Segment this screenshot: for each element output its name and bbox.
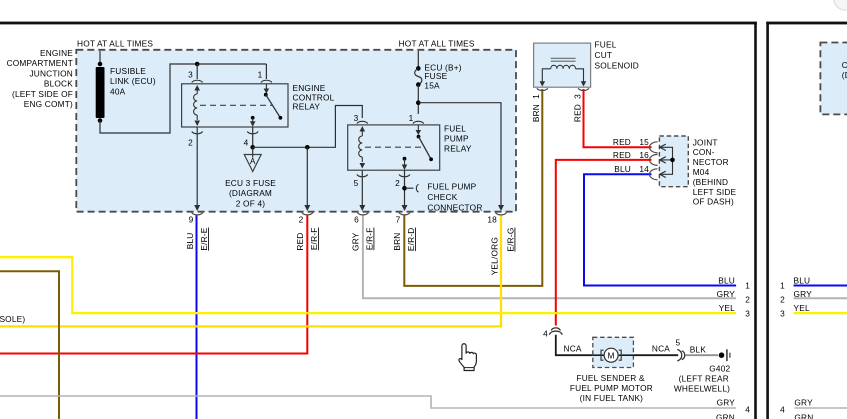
svg-text:BRN: BRN bbox=[392, 233, 402, 251]
svg-text:3: 3 bbox=[745, 308, 750, 318]
svg-text:2: 2 bbox=[745, 295, 750, 305]
svg-text:BLU: BLU bbox=[185, 233, 195, 250]
svg-text:15: 15 bbox=[639, 137, 649, 147]
svg-text:E/R-E: E/R-E bbox=[199, 227, 209, 250]
svg-text:RED: RED bbox=[613, 137, 631, 147]
svg-text:LEFT SIDE: LEFT SIDE bbox=[693, 187, 737, 197]
wire to pin 18 drop bbox=[418, 103, 501, 207]
ground G402 bbox=[719, 352, 725, 358]
node dot below fusible link bbox=[98, 118, 103, 123]
wire node to fuel pump relay pin 3 bbox=[253, 106, 363, 148]
joint connector M04 box bbox=[659, 136, 688, 187]
svg-text:1: 1 bbox=[745, 281, 750, 291]
svg-text:CUT: CUT bbox=[595, 50, 613, 60]
svg-text:(DIAGRAM: (DIAGRAM bbox=[229, 188, 272, 198]
connector arc pin 1 top bbox=[261, 80, 272, 82]
wire pin 2 down to block edge bbox=[196, 127, 198, 207]
wire BLK fuel sender feed bbox=[556, 335, 593, 355]
svg-text:E/R-F: E/R-F bbox=[309, 228, 319, 251]
svg-text:OF DASH): OF DASH) bbox=[693, 197, 734, 207]
svg-text:COMPARTMENT: COMPARTMENT bbox=[7, 58, 73, 68]
motor M1 symbol bbox=[593, 354, 604, 356]
svg-text:E/R-G: E/R-G bbox=[506, 228, 516, 252]
svg-text:JUNCTION: JUNCTION bbox=[29, 68, 73, 78]
svg-text:RELAY: RELAY bbox=[293, 101, 321, 111]
connector 4 on red wire double arc bbox=[549, 331, 562, 335]
svg-text:GRN: GRN bbox=[716, 413, 735, 419]
svg-text:E/R-D: E/R-D bbox=[406, 228, 416, 252]
svg-text:GRY: GRY bbox=[717, 398, 736, 408]
svg-text:BLK: BLK bbox=[690, 344, 707, 354]
watermark circle top-right bbox=[834, 0, 847, 10]
svg-text:FUEL PUMP: FUEL PUMP bbox=[427, 182, 476, 192]
svg-text:BLU: BLU bbox=[718, 275, 735, 285]
svg-text:5: 5 bbox=[354, 178, 359, 188]
connector arc FPR pin 3 top bbox=[357, 121, 368, 123]
svg-text:CON-: CON- bbox=[693, 147, 715, 157]
solenoid core lines bbox=[551, 58, 576, 61]
svg-text:(D: (D bbox=[842, 70, 847, 80]
wire GRY pin 6 to right bus bbox=[363, 216, 736, 299]
svg-text:FUEL SENDER &: FUEL SENDER & bbox=[576, 373, 644, 383]
connector arc solenoid pin 1 bbox=[537, 88, 548, 90]
relay switch contact (engine control relay) bbox=[265, 84, 267, 89]
wire YEL/ORG pin 18 down-left bus bbox=[0, 216, 501, 327]
wire BLU pin 9 vertical bbox=[196, 216, 198, 419]
mouse hand cursor bbox=[459, 344, 476, 371]
svg-text:RED: RED bbox=[295, 233, 305, 251]
wire RED joint connector pin 16 to fuel pump bbox=[556, 160, 652, 326]
node dot red branch bbox=[305, 145, 310, 150]
svg-text:FUEL PUMP MOTOR: FUEL PUMP MOTOR bbox=[570, 383, 653, 393]
wire BRN pin 7 to solenoid bbox=[404, 89, 542, 286]
svg-text:18: 18 bbox=[487, 215, 497, 225]
svg-text:FUSIBLE: FUSIBLE bbox=[110, 66, 146, 76]
page 2 wire GRY lower bbox=[794, 407, 847, 409]
svg-text:GRY: GRY bbox=[351, 232, 361, 251]
svg-text:2: 2 bbox=[780, 295, 785, 305]
svg-text:M: M bbox=[608, 350, 615, 360]
FPR pin 2 contact dot bbox=[403, 157, 407, 161]
svg-text:PUMP: PUMP bbox=[444, 134, 469, 144]
svg-text:YEL: YEL bbox=[794, 303, 810, 313]
wire FPR pin 2 down bbox=[404, 170, 406, 207]
bottom edge connector arcs pins 9,2,6,7,18 bbox=[192, 213, 203, 215]
svg-text:HOT AT ALL TIMES: HOT AT ALL TIMES bbox=[77, 39, 153, 49]
wire GRY lower bus bbox=[0, 396, 736, 408]
svg-text:1: 1 bbox=[531, 94, 541, 99]
node dot at pin3 branch bbox=[195, 62, 200, 67]
svg-text:3: 3 bbox=[354, 113, 359, 123]
svg-text:A: A bbox=[250, 156, 256, 166]
relay coil (engine control relay) bbox=[196, 90, 198, 94]
svg-text:GRY: GRY bbox=[794, 398, 813, 408]
svg-text:ENGINE: ENGINE bbox=[40, 48, 73, 58]
svg-text:JOINT: JOINT bbox=[693, 137, 718, 147]
wire pin1 drop bbox=[265, 64, 267, 79]
svg-text:RED: RED bbox=[613, 150, 631, 160]
joint connector internal bus bbox=[660, 147, 666, 174]
svg-text:15A: 15A bbox=[424, 80, 440, 90]
connector arc FPR pin 5 bottom bbox=[357, 175, 368, 177]
page 2 wire GRY bbox=[794, 297, 847, 299]
svg-text:2: 2 bbox=[188, 137, 193, 147]
svg-text:CONSOLE): CONSOLE) bbox=[0, 314, 25, 324]
svg-text:3: 3 bbox=[188, 70, 193, 80]
page 2 wire BLU bbox=[794, 285, 847, 287]
connector arc pin 2 bottom bbox=[192, 132, 203, 134]
svg-text:7: 7 bbox=[396, 215, 401, 225]
wire BLU joint connector pin 14 to bus bbox=[584, 174, 736, 285]
svg-text:RED: RED bbox=[573, 104, 583, 122]
svg-text:(LEFT SIDE OF: (LEFT SIDE OF bbox=[12, 89, 73, 99]
wire RED solenoid to joint connector pin 15 bbox=[584, 89, 652, 147]
svg-text:40A: 40A bbox=[110, 86, 126, 96]
svg-text:M04: M04 bbox=[693, 167, 710, 177]
svg-text:2: 2 bbox=[395, 178, 400, 188]
node dot above fusible link bbox=[98, 62, 103, 67]
svg-text:ECU 3 FUSE: ECU 3 FUSE bbox=[225, 178, 276, 188]
wire BLK to ground bbox=[686, 354, 719, 356]
wire FPR pin 5 down to block edge bbox=[361, 170, 363, 207]
svg-text:3: 3 bbox=[780, 308, 785, 318]
svg-text:C: C bbox=[842, 60, 847, 70]
fuse ECU (B+) 15A bbox=[417, 51, 419, 68]
wire RED pin 2 down-left bus bbox=[0, 216, 307, 354]
svg-text:3: 3 bbox=[573, 94, 583, 99]
node dot fuse branch bbox=[416, 100, 421, 105]
wire motor to connector 5 bbox=[633, 354, 678, 356]
wire fusible link to relay pin 3 feed bbox=[100, 64, 266, 133]
relay pin 4 contact dot bbox=[251, 116, 255, 120]
svg-text:FUEL: FUEL bbox=[595, 40, 617, 50]
wire fuse to pin1/pin18 node bbox=[417, 85, 419, 114]
svg-text:(LEFT REAR: (LEFT REAR bbox=[679, 374, 729, 384]
fusible link FL (ECU) 40A bbox=[96, 67, 105, 118]
svg-text:CHECK: CHECK bbox=[427, 192, 457, 202]
svg-text:14: 14 bbox=[639, 164, 649, 174]
page 2 wire YEL bbox=[794, 312, 847, 314]
connector arc solenoid pin 3 bbox=[578, 88, 589, 90]
svg-text:(IN FUEL TANK): (IN FUEL TANK) bbox=[580, 393, 644, 403]
joint connector pin arcs and arrows bbox=[649, 142, 657, 153]
connector arc FPR pin 1 top bbox=[413, 121, 424, 123]
page 2 left border bbox=[766, 22, 769, 419]
connector arc pin 4 bottom bbox=[247, 132, 258, 134]
ECU 3 fuse triangle A bbox=[252, 147, 254, 157]
svg-text:1: 1 bbox=[409, 113, 414, 123]
connector 5 double arc bbox=[677, 349, 681, 361]
svg-text:9: 9 bbox=[189, 215, 194, 225]
svg-text:HOT AT ALL TIMES: HOT AT ALL TIMES bbox=[399, 39, 475, 49]
page 2 top border bbox=[766, 22, 847, 25]
svg-text:SOLENOID: SOLENOID bbox=[595, 61, 639, 71]
svg-text:4: 4 bbox=[745, 405, 750, 415]
relay dashed actuator line (FPR) bbox=[365, 146, 424, 148]
svg-text:2 OF 4): 2 OF 4) bbox=[236, 199, 266, 209]
solenoid leads bbox=[542, 69, 550, 82]
svg-text:NECTOR: NECTOR bbox=[693, 157, 729, 167]
page 1 right border bbox=[754, 22, 757, 419]
svg-text:BLU: BLU bbox=[614, 164, 631, 174]
svg-text:BRN: BRN bbox=[531, 104, 541, 122]
fuel cut solenoid box bbox=[534, 43, 591, 87]
op box engine control relay U1 bbox=[182, 84, 288, 127]
page 1 top border bbox=[0, 22, 757, 25]
svg-text:1: 1 bbox=[258, 70, 263, 80]
svg-text:ENG COMT): ENG COMT) bbox=[24, 99, 73, 109]
node dot check connector branch bbox=[402, 186, 407, 191]
svg-text:E/R-F: E/R-F bbox=[365, 228, 375, 251]
svg-text:16: 16 bbox=[639, 150, 649, 160]
fuel sender / pump motor box bbox=[593, 337, 634, 367]
node dot pin4 branch bbox=[250, 145, 255, 150]
svg-text:5: 5 bbox=[675, 338, 680, 348]
relay dashed actuator line bbox=[200, 104, 272, 106]
svg-text:WHEELWELL): WHEELWELL) bbox=[674, 383, 730, 393]
wire pin 4 to node bbox=[252, 127, 254, 147]
svg-text:GRY: GRY bbox=[717, 289, 736, 299]
wire red branch down to block edge bbox=[306, 147, 308, 207]
svg-text:NCA: NCA bbox=[564, 343, 582, 353]
svg-text:4: 4 bbox=[244, 137, 249, 147]
page 2 dashed component box bbox=[820, 43, 847, 115]
svg-text:YEL: YEL bbox=[719, 303, 735, 313]
svg-text:4: 4 bbox=[780, 405, 785, 415]
engine compartment junction block box bbox=[76, 50, 516, 212]
connector arc FPR pin 2 bottom bbox=[399, 175, 410, 177]
wire YEL from left page edge bbox=[0, 257, 736, 313]
svg-text:1: 1 bbox=[780, 281, 785, 291]
relay coil (fuel pump relay) bbox=[361, 132, 363, 137]
svg-text:FUEL: FUEL bbox=[444, 124, 466, 134]
svg-text:4: 4 bbox=[543, 329, 548, 339]
relay switch contact (fuel pump relay) bbox=[417, 125, 419, 131]
svg-text:GRN: GRN bbox=[794, 413, 813, 419]
svg-text:2: 2 bbox=[299, 215, 304, 225]
svg-text:(BEHIND: (BEHIND bbox=[693, 177, 729, 187]
op box fuel pump relay U2 bbox=[348, 125, 440, 170]
wire from top border to fusible link bbox=[99, 51, 101, 64]
wire BRN from left page edge bbox=[0, 271, 59, 419]
wire pin3 drop bbox=[196, 64, 198, 79]
svg-text:YEL/ORG: YEL/ORG bbox=[490, 237, 500, 275]
svg-text:CONNECTOR: CONNECTOR bbox=[427, 202, 482, 212]
svg-text:G402: G402 bbox=[709, 364, 730, 374]
svg-text:NCA: NCA bbox=[652, 343, 670, 353]
svg-text:6: 6 bbox=[354, 215, 359, 225]
svg-text:BLU: BLU bbox=[794, 275, 811, 285]
solenoid coil bbox=[551, 65, 576, 68]
svg-text:RELAY: RELAY bbox=[444, 144, 472, 154]
svg-text:BLOCK: BLOCK bbox=[44, 79, 73, 89]
svg-text:LINK (ECU): LINK (ECU) bbox=[110, 76, 156, 86]
connector arc pin 3 top bbox=[192, 80, 203, 82]
fuel pump check connector stub bbox=[405, 187, 414, 189]
